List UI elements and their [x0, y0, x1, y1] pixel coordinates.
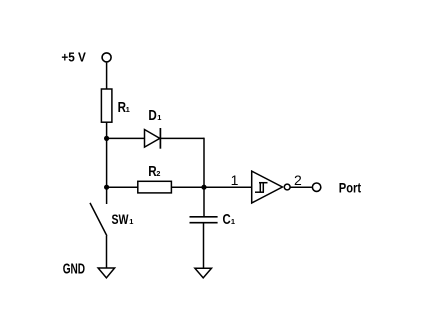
svg-text:D: D: [148, 108, 156, 124]
node C: [201, 185, 206, 190]
svg-text:1: 1: [126, 105, 130, 114]
svg-text:2: 2: [156, 169, 160, 178]
wire: [160, 137, 204, 139]
svg-text:1: 1: [231, 217, 235, 226]
op-amp U1 schmitt inverter: [252, 171, 283, 203]
svg-text:C: C: [223, 212, 232, 228]
terminal +5V: [102, 53, 111, 62]
terminal Port: [312, 183, 320, 191]
svg-text:1: 1: [129, 217, 133, 226]
ground: [195, 268, 212, 278]
resistor R2: [138, 181, 172, 193]
ground: [98, 268, 115, 278]
wire: [106, 122, 108, 204]
svg-text:1: 1: [157, 113, 161, 122]
svg-text:1: 1: [231, 172, 239, 188]
svg-text:Port: Port: [339, 179, 362, 195]
svg-text:SW: SW: [112, 211, 130, 227]
wire: [290, 186, 312, 188]
capacitor C1: [190, 216, 218, 218]
wire: [106, 63, 108, 89]
svg-text:2: 2: [294, 172, 302, 188]
svg-text:+5 V: +5 V: [61, 50, 86, 65]
switch SW1 blade: [90, 203, 107, 236]
node A: [104, 136, 109, 141]
diode D1: [145, 130, 160, 148]
svg-text:GND: GND: [63, 262, 85, 278]
node B: [104, 185, 109, 190]
wire: [203, 223, 205, 268]
wire: [106, 236, 108, 268]
wire: [171, 186, 251, 188]
wire: [203, 138, 205, 217]
resistor R1: [101, 89, 112, 122]
wire: [107, 137, 145, 139]
wire: [107, 186, 138, 188]
